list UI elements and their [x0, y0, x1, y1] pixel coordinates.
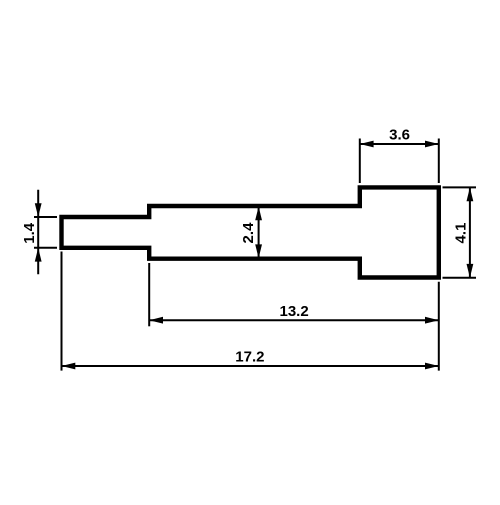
dimension 4.1: extension line top	[443, 186, 477, 188]
svg-text:3.6: 3.6	[389, 127, 410, 144]
part outline (stepped shaft profile)	[62, 187, 439, 277]
dimension 3.6: extension line left	[359, 139, 361, 184]
dimension 1.4: arrowhead bottom (pointing up)	[35, 248, 42, 262]
dimension 4.1: dimension line	[469, 187, 471, 277]
dimension 2.4: arrowhead bottom	[255, 244, 262, 258]
dimension 2.4: dimension line	[258, 207, 260, 259]
dimension 1.4: dimension line (through, arrows outside)	[37, 190, 39, 274]
dimension 3.6: arrowhead left	[360, 141, 374, 148]
dimension 3.6: extension line right	[438, 139, 440, 184]
dimension 2.4: arrowhead top	[255, 207, 262, 221]
dimension 3.6: arrowhead right	[425, 141, 439, 148]
svg-text:2.4: 2.4	[240, 222, 257, 244]
dimension 3.6: dimension line	[360, 143, 439, 145]
dimension 4.1: arrowhead bottom	[467, 264, 474, 278]
dimension 1.4: arrowhead top (pointing down)	[35, 203, 42, 217]
svg-text:4.1: 4.1	[452, 223, 469, 244]
dimension 13.2: extension line left	[148, 263, 150, 326]
dimension 13.2: arrowhead left	[149, 317, 163, 324]
dimension 17.2: dimension line	[62, 365, 439, 367]
svg-text:13.2: 13.2	[279, 303, 308, 320]
svg-text:1.4: 1.4	[21, 222, 38, 244]
dimension 1.4: extension line bottom	[34, 247, 57, 249]
dimension 17.2: extension line left	[61, 252, 63, 371]
svg-text:17.2: 17.2	[235, 349, 264, 366]
dimension 17.2: arrowhead right	[425, 363, 439, 370]
dimension 4.1: extension line bottom	[443, 277, 477, 279]
dimension 4.1: arrowhead top	[467, 187, 474, 201]
dimension 13.2: arrowhead right	[425, 317, 439, 324]
dimension 1.4: extension line top	[34, 216, 57, 218]
dimension 13.2: dimension line	[149, 319, 439, 321]
dimension 17.2: arrowhead left	[62, 363, 76, 370]
dimension 13.2: extension line right (shared with 17.2)	[438, 282, 440, 371]
